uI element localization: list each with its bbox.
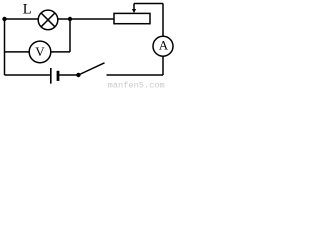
svg-text:V: V	[35, 44, 45, 59]
svg-text:manfen5.com: manfen5.com	[108, 80, 165, 89]
svg-text:L: L	[23, 2, 32, 18]
svg-text:A: A	[159, 38, 169, 53]
